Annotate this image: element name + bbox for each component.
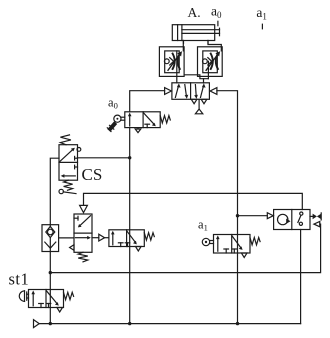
marker tick a0 xyxy=(217,21,219,25)
check valve CV xyxy=(42,225,59,252)
roller actuator under CS xyxy=(59,180,76,194)
wire F2 bottom to valve port 2 xyxy=(207,73,209,79)
wire CS right port to supply line xyxy=(78,157,130,159)
wire cylinder left port to flow control F1 xyxy=(182,41,184,51)
pilot triangle right of V1 xyxy=(210,88,217,95)
exhaust triangle V1 port 3 xyxy=(201,99,207,103)
wire a0 supply down to bottom rail xyxy=(129,128,131,324)
flow control valve F1 xyxy=(159,47,184,83)
svg-text:a1: a1 xyxy=(198,217,208,232)
valve a1 (3/2 roller) xyxy=(202,235,260,258)
wire pilot branch to counter xyxy=(238,215,268,217)
wire pilot bus H6 xyxy=(84,193,303,209)
bottom supply rail xyxy=(39,323,300,325)
wire a0 output to V1 left pilot xyxy=(130,91,165,112)
pilot triangle on top of V2 xyxy=(80,205,88,212)
wire F1 bottom jog xyxy=(184,75,208,79)
pilot triangle left of counter xyxy=(267,213,273,219)
svg-text:a1: a1 xyxy=(256,5,267,22)
junction dot CS supply tee xyxy=(128,156,131,159)
svg-text:st1: st1 xyxy=(9,269,30,288)
wire CS left port down to check valve xyxy=(50,158,59,224)
spring on top of CS xyxy=(60,135,71,145)
spring under V2 xyxy=(78,252,88,262)
wire cylinder right port to flow control F2 xyxy=(208,41,221,51)
valve V2 (3/2 pilot operated, vertical) xyxy=(74,214,92,252)
valve a0 (3/2 idle-return roller) xyxy=(107,112,170,133)
exhaust triangle V1 port 5 xyxy=(191,99,197,103)
supply source triangle xyxy=(34,320,40,328)
flow control valve F2 xyxy=(198,47,223,77)
pilot triangle right of counter xyxy=(314,221,320,226)
junction dot rail at x237 xyxy=(236,322,239,325)
svg-text:a0: a0 xyxy=(211,4,222,21)
svg-text:A.: A. xyxy=(188,5,201,20)
pilot triangle left of V3 xyxy=(99,234,105,241)
junction dot rail at x50 xyxy=(49,322,52,325)
valve V3 (3/2 pilot operated) xyxy=(109,230,154,251)
counter Z1 xyxy=(274,210,310,230)
wire CV side port to V2 left port xyxy=(59,237,74,239)
cylinder A (double-acting) xyxy=(172,25,219,44)
svg-text:a0: a0 xyxy=(108,95,118,110)
pressure source under V1 xyxy=(195,99,202,114)
junction dot H7 left xyxy=(49,271,52,274)
wire V2 output to V3 pilot xyxy=(92,237,99,239)
pilot triangle left of V1 xyxy=(165,88,172,95)
junction dot rail at x130 xyxy=(128,322,131,325)
5/2-way double pilot valve V1 xyxy=(172,83,210,100)
valve CS (3/2, vertical) xyxy=(59,145,81,181)
junction dot pilot branch xyxy=(236,214,239,217)
exhaust triangle left of V2 xyxy=(70,245,74,251)
manual override bowtie at counter xyxy=(310,213,321,220)
wire H7 lower pilot bus xyxy=(50,224,320,273)
marker tick a1 xyxy=(261,24,263,29)
valve st1 (3/2 push button) xyxy=(19,290,73,313)
wire V1 right pilot to right bus xyxy=(217,91,238,324)
svg-text:CS: CS xyxy=(82,165,103,184)
wire counter bottom to rail xyxy=(300,230,302,324)
wire CV bottom down to rail xyxy=(49,252,51,324)
